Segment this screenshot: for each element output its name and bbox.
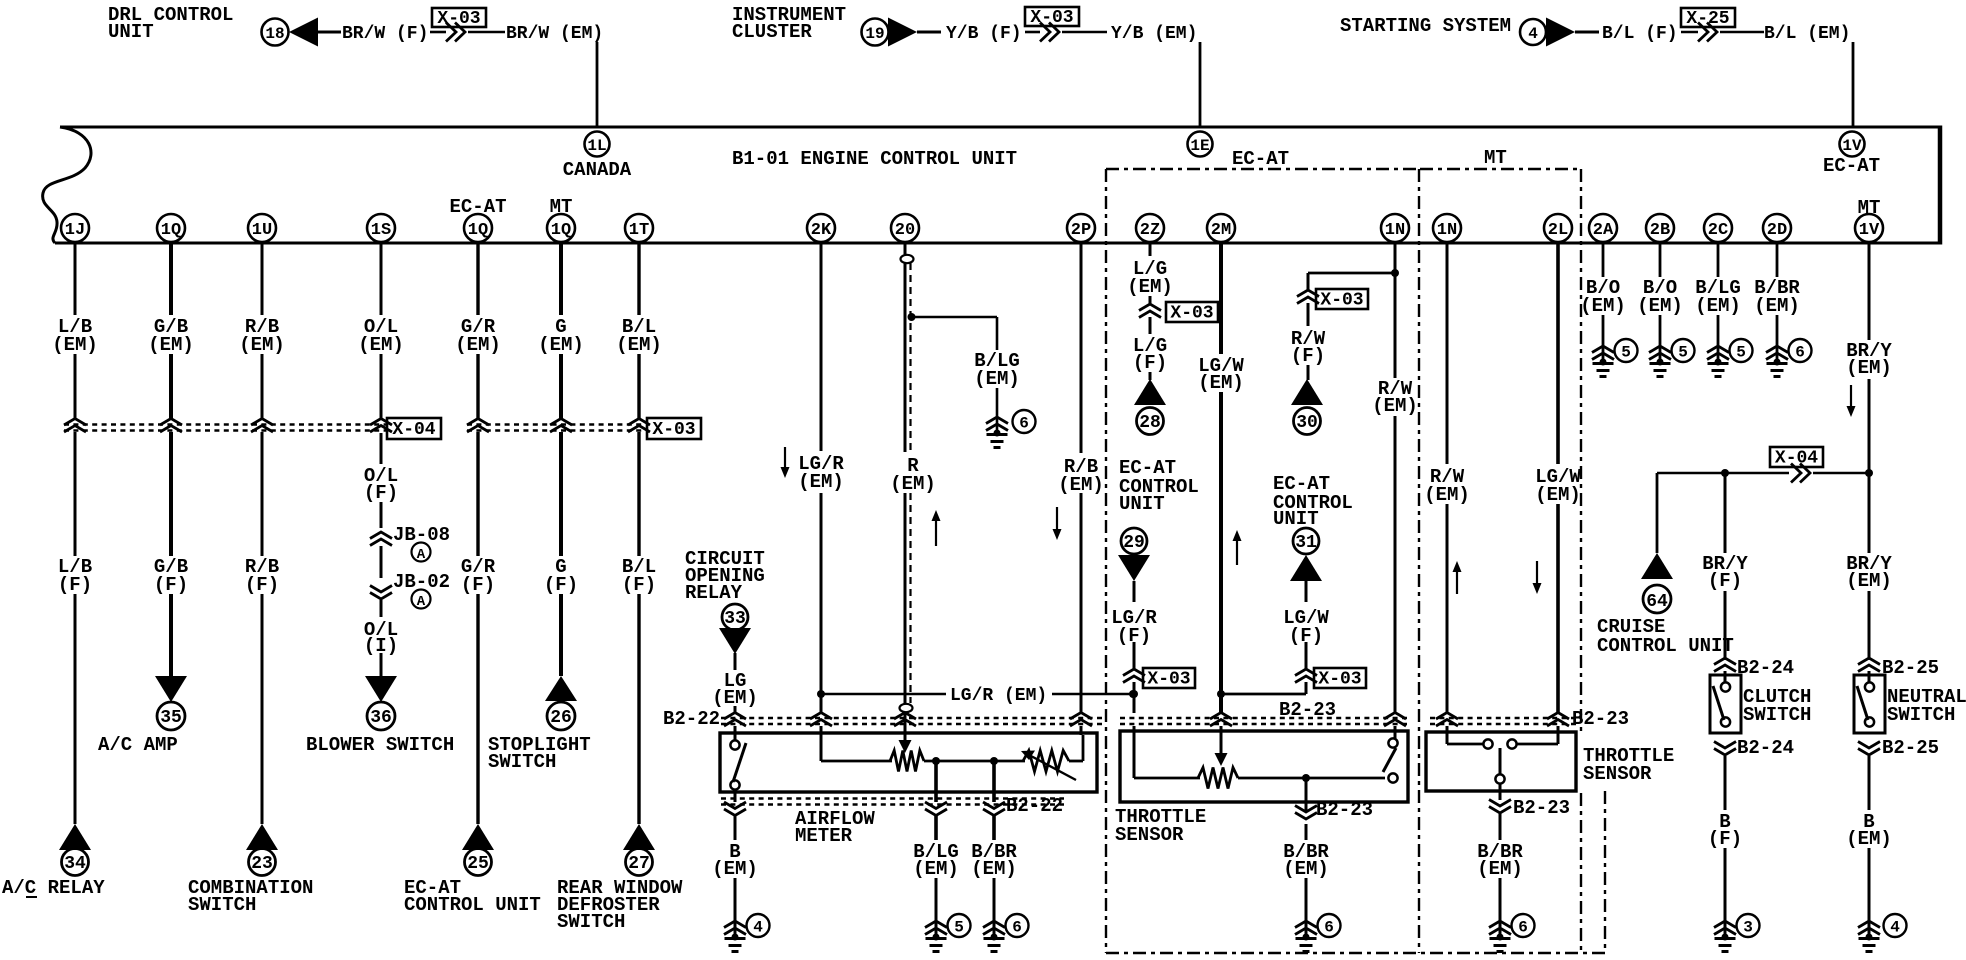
svg-text:2K: 2K: [811, 221, 832, 240]
svg-text:B2-23: B2-23: [1572, 708, 1629, 730]
svg-text:(EM): (EM): [1477, 858, 1523, 880]
svg-text:SWITCH: SWITCH: [1743, 704, 1811, 726]
svg-text:X-03: X-03: [1318, 670, 1361, 690]
svg-text:SWITCH: SWITCH: [1887, 704, 1955, 726]
svg-text:B2-23: B2-23: [1279, 699, 1336, 721]
svg-text:Y/B (F): Y/B (F): [946, 24, 1022, 44]
svg-text:(EM): (EM): [1637, 295, 1683, 317]
svg-text:25: 25: [467, 854, 489, 874]
svg-text:5: 5: [954, 919, 964, 937]
svg-text:RELAY: RELAY: [685, 582, 743, 604]
svg-text:X-03: X-03: [1320, 291, 1363, 311]
svg-text:A: A: [417, 594, 426, 610]
svg-text:6: 6: [1795, 344, 1805, 362]
svg-text:(EM): (EM): [1198, 372, 1244, 394]
svg-text:6: 6: [1324, 919, 1334, 937]
svg-text:(EM): (EM): [52, 334, 98, 356]
svg-text:A/C RELAY: A/C RELAY: [2, 877, 105, 899]
svg-text:(EM): (EM): [1127, 276, 1173, 298]
svg-text:(EM): (EM): [1754, 295, 1800, 317]
svg-text:(EM): (EM): [616, 334, 662, 356]
svg-text:(EM): (EM): [1846, 828, 1892, 850]
svg-text:1V: 1V: [1842, 137, 1862, 155]
svg-text:2P: 2P: [1071, 221, 1091, 240]
svg-text:(EM): (EM): [890, 473, 936, 495]
svg-text:X-04: X-04: [392, 420, 435, 440]
svg-text:1S: 1S: [371, 221, 391, 240]
svg-text:5: 5: [1678, 344, 1688, 362]
svg-text:CLUSTER: CLUSTER: [732, 21, 812, 43]
svg-text:UNIT: UNIT: [1273, 508, 1319, 530]
svg-text:2L: 2L: [1548, 221, 1568, 240]
svg-text:B2-23: B2-23: [1316, 799, 1373, 821]
svg-text:SWITCH: SWITCH: [188, 894, 256, 916]
svg-text:4: 4: [1890, 919, 1900, 937]
svg-text:CANADA: CANADA: [563, 159, 632, 181]
svg-text:1V: 1V: [1859, 221, 1880, 240]
svg-text:B2-23: B2-23: [1513, 797, 1570, 819]
svg-text:MT: MT: [1858, 197, 1881, 219]
svg-text:1L: 1L: [587, 137, 606, 155]
svg-text:(EM): (EM): [798, 471, 844, 493]
svg-text:1J: 1J: [65, 221, 85, 240]
svg-text:UNIT: UNIT: [1119, 493, 1165, 515]
svg-text:(F): (F): [1708, 828, 1742, 850]
svg-text:2B: 2B: [1650, 221, 1670, 240]
svg-text:26: 26: [550, 708, 572, 728]
svg-text:Y/B (EM): Y/B (EM): [1111, 24, 1197, 44]
svg-text:(EM): (EM): [971, 858, 1017, 880]
svg-text:(F): (F): [1708, 570, 1742, 592]
svg-text:20: 20: [895, 221, 915, 240]
svg-text:1T: 1T: [629, 221, 649, 240]
svg-text:6: 6: [1019, 415, 1029, 433]
svg-text:34: 34: [64, 854, 86, 874]
svg-text:18: 18: [265, 25, 284, 43]
svg-text:BLOWER SWITCH: BLOWER SWITCH: [306, 734, 454, 756]
svg-text:1Q: 1Q: [161, 221, 181, 240]
svg-text:B2-24: B2-24: [1737, 737, 1794, 759]
svg-text:5: 5: [1621, 344, 1631, 362]
svg-text:23: 23: [251, 854, 273, 874]
svg-text:(EM): (EM): [1846, 357, 1892, 379]
svg-text:4: 4: [1528, 25, 1538, 43]
svg-text:X-03: X-03: [1170, 304, 1213, 324]
svg-text:2Z: 2Z: [1140, 221, 1160, 240]
svg-text:33: 33: [724, 609, 746, 629]
svg-text:30: 30: [1296, 413, 1318, 433]
svg-text:(EM): (EM): [1695, 295, 1741, 317]
svg-text:CONTROL UNIT: CONTROL UNIT: [1597, 635, 1734, 657]
svg-text:SENSOR: SENSOR: [1583, 763, 1652, 785]
svg-text:B1-01 ENGINE CONTROL UNIT: B1-01 ENGINE CONTROL UNIT: [732, 148, 1017, 170]
svg-text:(F): (F): [461, 574, 495, 596]
svg-text:CONTROL UNIT: CONTROL UNIT: [404, 894, 541, 916]
svg-text:(F): (F): [58, 574, 92, 596]
svg-text:SWITCH: SWITCH: [557, 911, 625, 933]
svg-text:(F): (F): [154, 574, 188, 596]
svg-text:28: 28: [1139, 413, 1161, 433]
svg-text:29: 29: [1123, 533, 1145, 553]
svg-text:X-03: X-03: [652, 420, 695, 440]
svg-text:1Q: 1Q: [551, 221, 571, 240]
svg-text:(EM): (EM): [1372, 395, 1418, 417]
svg-text:(F): (F): [1133, 352, 1167, 374]
svg-text:B2-22: B2-22: [1006, 795, 1063, 817]
svg-text:6: 6: [1012, 919, 1022, 937]
svg-text:27: 27: [628, 854, 650, 874]
svg-text:B2-25: B2-25: [1882, 657, 1939, 679]
svg-text:B2-25: B2-25: [1882, 737, 1939, 759]
svg-text:EC-AT: EC-AT: [1823, 155, 1880, 177]
svg-text:X-03: X-03: [1147, 670, 1190, 690]
svg-text:(F): (F): [245, 574, 279, 596]
svg-text:(EM): (EM): [538, 334, 584, 356]
svg-text:BR/W (F): BR/W (F): [342, 24, 428, 44]
svg-text:(EM): (EM): [974, 368, 1020, 390]
svg-text:6: 6: [1518, 919, 1528, 937]
svg-text:(EM): (EM): [239, 334, 285, 356]
svg-text:STARTING SYSTEM: STARTING SYSTEM: [1340, 15, 1511, 37]
svg-text:EC-AT: EC-AT: [449, 196, 506, 218]
svg-text:(F): (F): [364, 482, 398, 504]
svg-text:4: 4: [753, 919, 763, 937]
svg-text:X-04: X-04: [1775, 449, 1818, 469]
svg-text:1N: 1N: [1385, 221, 1405, 240]
svg-text:X-25: X-25: [1686, 9, 1729, 29]
svg-text:19: 19: [865, 25, 884, 43]
svg-text:(EM): (EM): [1846, 570, 1892, 592]
svg-text:(EM): (EM): [1580, 295, 1626, 317]
svg-text:LG/R (EM): LG/R (EM): [950, 686, 1047, 706]
svg-text:(EM): (EM): [148, 334, 194, 356]
svg-text:SWITCH: SWITCH: [488, 751, 556, 773]
svg-text:1Q: 1Q: [468, 221, 488, 240]
svg-text:31: 31: [1295, 533, 1317, 553]
svg-text:(EM): (EM): [1535, 484, 1581, 506]
svg-text:UNIT: UNIT: [108, 21, 154, 43]
svg-text:A/C AMP: A/C AMP: [98, 734, 178, 756]
svg-text:MT: MT: [1484, 147, 1507, 169]
svg-text:2A: 2A: [1593, 221, 1614, 240]
svg-text:(EM): (EM): [455, 334, 501, 356]
svg-text:35: 35: [160, 708, 182, 728]
svg-text:2M: 2M: [1211, 221, 1231, 240]
svg-text:(EM): (EM): [913, 858, 959, 880]
svg-text:(EM): (EM): [712, 858, 758, 880]
svg-text:2C: 2C: [1708, 221, 1728, 240]
svg-text:BR/W (EM): BR/W (EM): [506, 24, 603, 44]
svg-text:1U: 1U: [252, 221, 272, 240]
svg-text:(F): (F): [544, 574, 578, 596]
svg-text:(EM): (EM): [1424, 484, 1470, 506]
svg-text:2D: 2D: [1767, 221, 1787, 240]
svg-text:A: A: [417, 547, 426, 563]
svg-text:5: 5: [1736, 344, 1746, 362]
svg-text:3: 3: [1743, 919, 1753, 937]
svg-text:EC-AT: EC-AT: [1232, 148, 1289, 170]
svg-text:1N: 1N: [1437, 221, 1457, 240]
svg-text:METER: METER: [795, 825, 853, 847]
svg-text:B2-24: B2-24: [1737, 657, 1794, 679]
svg-text:1E: 1E: [1190, 137, 1209, 155]
svg-text:(F): (F): [622, 574, 656, 596]
svg-text:36: 36: [370, 708, 392, 728]
svg-text:64: 64: [1646, 592, 1668, 612]
svg-text:(EM): (EM): [358, 334, 404, 356]
svg-text:SENSOR: SENSOR: [1115, 824, 1184, 846]
svg-text:MT: MT: [550, 196, 573, 218]
svg-text:B2-22: B2-22: [663, 708, 720, 730]
svg-text:(F): (F): [1291, 345, 1325, 367]
svg-text:(EM): (EM): [1283, 858, 1329, 880]
svg-text:(EM): (EM): [712, 687, 758, 709]
svg-text:(EM): (EM): [1058, 474, 1104, 496]
svg-text:B/L (F): B/L (F): [1602, 24, 1678, 44]
svg-text:B/L (EM): B/L (EM): [1764, 24, 1850, 44]
